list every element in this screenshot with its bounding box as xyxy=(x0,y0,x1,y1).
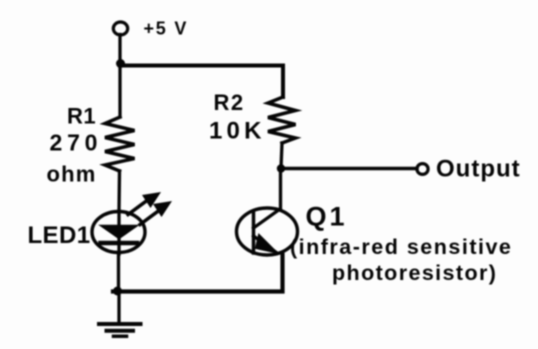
ground xyxy=(99,324,141,336)
node junction top xyxy=(116,59,125,68)
node junction output xyxy=(277,164,285,172)
resistor R2 xyxy=(268,97,296,143)
svg-text:+5 V: +5 V xyxy=(144,19,189,39)
LED LED1 xyxy=(92,211,145,254)
node junction ground xyxy=(113,287,122,296)
+5V terminal xyxy=(113,22,127,35)
LED emission arrow 1 xyxy=(128,192,161,215)
output terminal xyxy=(417,164,428,175)
wire junction to Q1 xyxy=(279,168,282,208)
svg-text:LED1: LED1 xyxy=(28,222,91,249)
svg-text:ohm: ohm xyxy=(47,162,97,187)
svg-text:R1: R1 xyxy=(67,104,96,129)
wire top rail xyxy=(120,66,283,98)
wire LED to rail xyxy=(117,254,120,291)
svg-text:Q1: Q1 xyxy=(306,202,348,232)
resistor R1 xyxy=(105,117,135,171)
wire rail junction to R1 top, through R1/LED branch xyxy=(118,63,121,117)
wire R2 to junction xyxy=(281,143,282,168)
transistor Q1 xyxy=(237,208,298,255)
svg-text:Output: Output xyxy=(436,156,521,183)
wire rail to ground xyxy=(117,291,120,322)
wire Q1 to rail xyxy=(113,255,283,292)
wire output xyxy=(281,167,417,170)
wire R1 to LED xyxy=(117,171,121,211)
wire terminal to junction xyxy=(118,35,121,64)
svg-text:(infra-red sensitive: (infra-red sensitive xyxy=(290,235,512,259)
svg-text:270: 270 xyxy=(50,130,103,156)
LED emission arrow 2 xyxy=(140,201,172,225)
svg-text:10K: 10K xyxy=(209,118,266,145)
svg-text:R2: R2 xyxy=(214,90,245,115)
svg-text:photoresistor): photoresistor) xyxy=(332,261,497,285)
